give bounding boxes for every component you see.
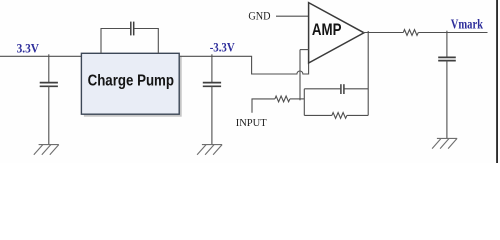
- wire to Vmark: [418, 32, 487, 34]
- svg-text:GND: GND: [248, 11, 270, 23]
- node 3.3V label: [17, 41, 39, 55]
- node Vmark label: [451, 17, 483, 32]
- wire -3.3V branch upper: [211, 54, 213, 82]
- capacitor C3: [203, 83, 221, 87]
- svg-text:AMP: AMP: [312, 20, 342, 39]
- svg-text:INPUT: INPUT: [236, 117, 267, 129]
- node -3.3V label: [210, 41, 235, 55]
- capacitor C1: [40, 83, 58, 87]
- wire output: [363, 32, 403, 34]
- wire feedback left vertical: [303, 89, 305, 116]
- capacitor C4 (feedback): [341, 84, 344, 94]
- wire flying-cap right leg: [134, 29, 158, 54]
- resistor R1 (input): [275, 96, 290, 102]
- wire R1 to summing node: [290, 98, 304, 100]
- ground G2: [197, 145, 222, 155]
- wire left branch upper: [48, 54, 50, 82]
- wire output feedback vertical: [367, 31, 369, 115]
- node INPUT label: [236, 117, 267, 129]
- svg-text:Vmark: Vmark: [451, 17, 483, 32]
- wire feedback res right: [347, 114, 368, 116]
- wire INPUT stub: [252, 99, 275, 113]
- ground G1: [34, 145, 59, 155]
- resistor R2 (feedback): [332, 113, 347, 119]
- wire 3.3V rail: [0, 55, 81, 57]
- wire inverting input: [300, 49, 309, 51]
- wire left branch lower: [48, 86, 50, 144]
- ground G3: [432, 138, 457, 148]
- svg-text:-3.3V: -3.3V: [210, 41, 235, 55]
- wire feedback cap left: [304, 88, 340, 90]
- op-amp U2: [309, 3, 364, 63]
- wire -3.3V rail to amp supply (with hop): [179, 56, 308, 74]
- capacitor C5: [438, 57, 456, 60]
- wire GND to non-inverting input: [276, 15, 309, 17]
- wire -3.3V branch lower: [211, 86, 213, 144]
- resistor R3 (output): [403, 30, 418, 36]
- svg-text:3.3V: 3.3V: [17, 41, 39, 55]
- svg-text:Charge Pump: Charge Pump: [88, 73, 175, 90]
- wire feedback res left: [304, 114, 332, 116]
- wire inverting input vertical: [299, 50, 301, 101]
- capacitor C2 (flying): [131, 22, 134, 36]
- wire Vmark branch upper: [446, 31, 448, 58]
- wire Vmark branch lower: [446, 61, 448, 139]
- charge pump U1: [81, 53, 181, 116]
- node GND label: [248, 11, 270, 23]
- wire flying-cap left leg: [101, 29, 130, 54]
- wire feedback cap right: [344, 88, 368, 90]
